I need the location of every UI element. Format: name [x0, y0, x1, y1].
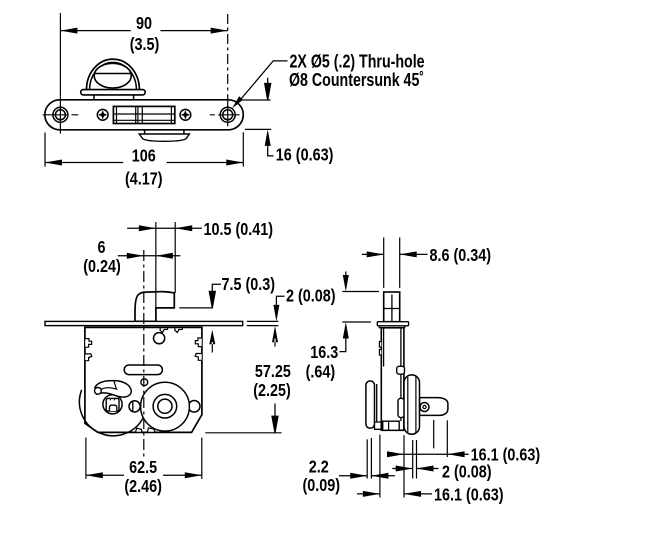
lever arm: [420, 398, 448, 416]
side roller inner line: [376, 384, 378, 425]
body bottom foot: [383, 421, 400, 430]
dim 16.3 bottom extension line: [342, 321, 371, 323]
roller dome outer arc: [87, 59, 140, 90]
left countersunk hole inner: [55, 110, 65, 120]
left hole vertical centerline: [59, 96, 61, 133]
disc inner line a: [407, 377, 409, 432]
deadbolt hook: [135, 292, 174, 322]
bottom extension lines group: [367, 420, 447, 498]
dim 62.5 arrowheads: [86, 472, 202, 478]
crescent tip circle: [95, 387, 102, 394]
roller ball ellipse: [94, 63, 131, 88]
svg-text:7.5 (0.3): 7.5 (0.3): [222, 275, 276, 295]
svg-text:16 (0.63): 16 (0.63): [276, 145, 334, 165]
dim 2 side line: [392, 468, 438, 470]
body left notch 1: [379, 342, 381, 348]
dim 106 line: [45, 162, 243, 164]
lever pivot circle: [420, 403, 429, 412]
small circle below slot: [141, 379, 148, 386]
right bump circle: [188, 401, 200, 413]
dim 8.6 line and arrows: [362, 253, 428, 255]
side case body: [381, 328, 404, 431]
square hub inner window: [110, 405, 117, 411]
dim 16.3 lower arrow with bracket: [340, 335, 346, 352]
svg-text:57.25: 57.25: [255, 362, 291, 382]
dim 16.3 upper arrow: [345, 272, 347, 278]
svg-text:(2.25): (2.25): [253, 381, 291, 401]
dim 57.25 lower arrow: [272, 404, 278, 433]
top small circle: [154, 333, 165, 344]
side flange lip: [379, 326, 404, 328]
dim 16.3 top extension line: [342, 291, 379, 293]
D-circle chord: [132, 402, 134, 412]
svg-text:106: 106: [132, 146, 156, 166]
latch inner horizontal lines: [113, 113, 174, 115]
top edge tab 1: [160, 328, 167, 333]
post center line: [391, 295, 393, 322]
roller wheel arc: [79, 390, 144, 436]
svg-text:16.3: 16.3: [310, 342, 338, 362]
body inner left line: [383, 328, 385, 367]
latch crescent lever: [95, 381, 131, 397]
dim 106 right extension line: [242, 132, 244, 166]
crescent divider line: [114, 381, 116, 389]
svg-text:(2.46): (2.46): [124, 476, 162, 496]
latch inner vertical lines: [116, 106, 118, 123]
svg-text:10.5 (0.41): 10.5 (0.41): [204, 219, 274, 239]
case bottom extension line: [205, 432, 281, 434]
dim 2.2 arrowheads: [350, 473, 388, 479]
crescent inner line: [101, 388, 118, 390]
latch bottom dish: [139, 134, 189, 141]
slot: [124, 365, 162, 375]
dim 16 top extension line: [243, 99, 271, 101]
SIDE VIEW GROUP: [303, 238, 541, 505]
svg-text:62.5: 62.5: [129, 458, 157, 478]
dim 6 arrowheads: [127, 253, 173, 259]
dome base stem left line: [93, 95, 95, 100]
svg-text:(.64): (.64): [306, 362, 336, 382]
svg-text:90: 90: [136, 14, 152, 34]
dome base flange: [81, 90, 146, 95]
svg-text:2 (0.08): 2 (0.08): [442, 462, 492, 482]
disc inner line b: [415, 377, 417, 433]
bottom edge tab 1: [135, 428, 141, 432]
svg-text:(4.17): (4.17): [125, 169, 163, 189]
dim 10.5 arrowheads: [139, 225, 192, 231]
body right tab upper: [397, 366, 405, 374]
hub disc middle ring: [153, 394, 177, 418]
side disc (stadium): [404, 375, 420, 434]
svg-text:Ø8 Countersunk 45˚: Ø8 Countersunk 45˚: [289, 70, 424, 90]
left edge tab 2: [85, 354, 92, 361]
dim 2 side arrowheads: [396, 466, 434, 472]
right screw: [180, 109, 191, 120]
dim 7.5 upper arrow with bracket: [209, 284, 221, 308]
faceplate front: [45, 321, 243, 325]
hub disc inner ring: [158, 399, 172, 413]
dim 16 lower arrow with leader: [268, 143, 274, 156]
lock case body: [85, 327, 202, 432]
latch plate rectangle: [113, 106, 174, 123]
dim 62.5 left extension line: [85, 438, 87, 479]
dim 2 bracket and upper arrow: [276, 296, 284, 307]
svg-text:2X Ø5 (.2) Thru-hole: 2X Ø5 (.2) Thru-hole: [290, 52, 425, 72]
dim 16.1 lower arrowheads: [363, 491, 421, 497]
roller dome inner arc: [90, 62, 137, 89]
D-circle left of hub: [129, 401, 140, 412]
body lower tab: [398, 398, 404, 417]
faceplate (stadium outline): [45, 100, 244, 130]
right hole horizontal centerline: [210, 114, 240, 116]
dim 90 arrowheads: [60, 28, 227, 34]
dim 16.1 upper arrowheads: [387, 451, 465, 457]
left edge tab 1: [85, 339, 91, 348]
dome base stem right line: [133, 95, 135, 100]
dim 90 line: [60, 30, 227, 32]
svg-text:(3.5): (3.5): [130, 35, 160, 55]
svg-text:(0.09): (0.09): [303, 476, 341, 496]
dim 7.5 step extension line: [179, 307, 213, 309]
thru-hole leader line: [236, 61, 288, 105]
square hub square: [106, 398, 119, 411]
dim 16.1 upper line: [392, 453, 469, 455]
svg-text:(0.24): (0.24): [83, 256, 121, 276]
thru-hole leader arrowhead: [232, 96, 243, 108]
svg-text:2.2: 2.2: [309, 457, 329, 477]
dim 106 arrowheads: [45, 160, 243, 166]
right edge tab 1: [195, 338, 201, 347]
left countersunk hole outer: [53, 107, 68, 122]
svg-text:6: 6: [97, 237, 105, 257]
vertical dashed centerline: [143, 250, 145, 458]
main hub disc: [141, 382, 190, 431]
body inner right line: [400, 328, 402, 421]
dim 16 upper arrow: [265, 78, 271, 100]
dim 90 right extension line (chain): [227, 14, 229, 95]
square hub outer circle: [103, 395, 122, 414]
side flange: [377, 322, 408, 326]
roller bottom bracket: [375, 422, 382, 429]
svg-text:8.6 (0.34): 8.6 (0.34): [430, 246, 492, 266]
dim 10.5 line: [127, 227, 202, 229]
side post: [384, 292, 400, 322]
dim 10.5 extension line a: [155, 222, 157, 308]
dim 90 left extension line: [59, 13, 61, 96]
left screw: [97, 109, 108, 120]
svg-text:16.1 (0.63): 16.1 (0.63): [434, 485, 504, 505]
dim 16 bottom extension line: [245, 128, 271, 130]
foot divider line: [388, 421, 390, 430]
post horizontal line: [384, 308, 400, 310]
dim 57.25 upper arrow: [272, 326, 278, 347]
dim 7.5 lower arrow: [209, 330, 215, 353]
right countersunk hole outer: [220, 107, 235, 122]
dim 8.6 extension lines: [384, 238, 400, 288]
right hole vertical centerline: [227, 95, 229, 127]
left hole horizontal centerline: [43, 114, 79, 116]
dim 62.5 right extension line: [201, 438, 203, 479]
right countersunk hole inner: [223, 110, 233, 120]
lever pivot dot: [423, 405, 426, 408]
top edge tab 2: [175, 328, 183, 333]
svg-text:2 (0.08): 2 (0.08): [286, 286, 336, 306]
TOP VIEW GROUP: [43, 13, 425, 189]
dim 16.1 lower line: [357, 493, 432, 495]
side roller ellipse: [366, 381, 375, 428]
FRONT VIEW GROUP: [45, 219, 336, 496]
right edge tab 2: [195, 354, 202, 361]
roller ball chord line: [94, 73, 131, 75]
body left notch 2: [379, 350, 381, 356]
dim 2 extension lines right of faceplate: [247, 321, 279, 325]
square hub top ticks: [110, 398, 114, 400]
dim 62.5 line: [86, 474, 202, 476]
dim 2.2 line: [339, 475, 395, 477]
dim 6 line: [118, 255, 181, 257]
dim 10.5 extension line b: [174, 222, 176, 293]
bottom edge tab 2: [147, 428, 155, 433]
latch bottom stems: [144, 130, 146, 134]
dim 106 left extension line: [44, 133, 46, 167]
